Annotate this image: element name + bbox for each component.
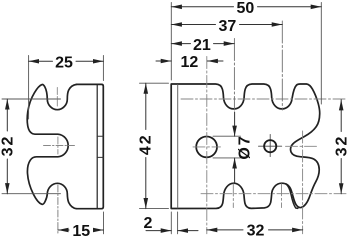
left view: 15 extension dashdot [57, 185, 59, 234]
svg-text:21: 21 [193, 37, 211, 54]
svg-text:32: 32 [0, 135, 17, 157]
2 extension lines [171, 212, 177, 234]
right view horizontal centerlines [181, 99, 347, 194]
svg-text:25: 25 [55, 55, 73, 72]
42 extension lines [140, 83, 169, 208]
right view: bend line at 2mm [177, 85, 179, 208]
left view 25 extension lines [29, 56, 104, 120]
dim 2 (outside arrows) [146, 230, 171, 232]
dim 21 [171, 43, 190, 45]
dim Ø7 (outside arrows) [234, 112, 236, 136]
right view top extension lines [171, 3, 321, 105]
svg-text:Ø7: Ø7 [237, 134, 254, 159]
svg-text:15: 15 [72, 223, 90, 237]
dim 50 [171, 6, 233, 8]
Ø7 extension lines [213, 136, 241, 158]
svg-text:32: 32 [334, 135, 350, 157]
left view: plate (top edge, back edge, bottom edge) [77, 84, 104, 208]
right view vertical centerlines / extensions [207, 57, 303, 234]
dim 32 right [340, 100, 342, 132]
hole 1 (Ø7) [196, 137, 217, 158]
svg-text:2: 2 [144, 215, 153, 232]
dim 15 [58, 229, 69, 231]
svg-text:32: 32 [247, 223, 265, 237]
arch2 right foot (overlap strand) [286, 184, 298, 209]
left view centerlines [44, 88, 75, 155]
hole 2 (small) [264, 140, 276, 152]
svg-text:12: 12 [181, 54, 199, 71]
left view 15 right extension [103, 212, 105, 234]
svg-text:37: 37 [219, 18, 237, 35]
svg-text:42: 42 [138, 133, 155, 155]
svg-text:50: 50 [237, 0, 255, 17]
dim 32 left [6, 99, 8, 131]
dim 37 [171, 24, 215, 26]
left view: hole tangent ticks on plate [97, 136, 103, 157]
dim 25 [29, 60, 53, 62]
dim 12 (outside arrows) [156, 60, 171, 62]
left view: plate front face line [96, 84, 98, 208]
hole 2 (small) cross [259, 135, 282, 157]
right view outline [171, 84, 320, 209]
dim 42 [145, 83, 147, 129]
dim 32 bottom [207, 229, 243, 231]
left view 32 extension lines [2, 99, 61, 194]
left view: side profile outline (hooks) [27, 84, 76, 208]
